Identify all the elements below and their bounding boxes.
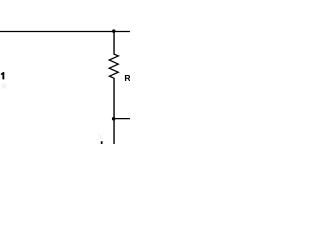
wire: vertical segment from top junction to resistor [113,32,115,55]
node B (junction of resistor lead and bottom wire) [112,117,116,121]
wire: top horizontal net 1 [0,31,130,33]
resistor R (zigzag body) [109,54,118,78]
wire: bottom horizontal to right edge [114,118,130,120]
node 1 label [1,72,4,79]
partial component mark at bottom edge [101,141,103,144]
node A (junction of top wire and resistor) [112,29,116,32]
faint smudge left [2,84,7,89]
resistor R value label [125,75,131,81]
faint artifact X above bottom mark [98,133,103,140]
wire: vertical segment from resistor down to bottom edge [113,78,115,144]
